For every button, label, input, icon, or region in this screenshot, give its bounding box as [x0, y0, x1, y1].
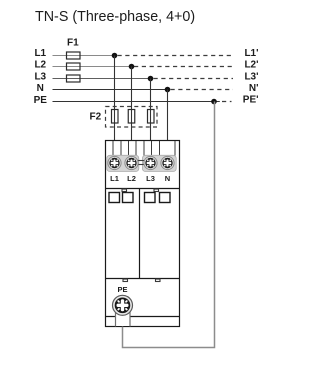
PE terminal screw	[113, 295, 133, 315]
svg-text:F1: F1	[67, 38, 79, 49]
wire drop N	[167, 90, 169, 160]
fuse F2 L3	[148, 110, 155, 124]
svg-text:PE': PE'	[243, 95, 259, 106]
node L3 junction	[148, 76, 154, 82]
wire PE dashed	[222, 101, 232, 103]
wire L1 dashed	[118, 55, 234, 57]
wire drop L3	[150, 79, 152, 160]
wire L3 dashed	[154, 78, 234, 80]
svg-text:PE: PE	[34, 95, 48, 106]
node L2 junction	[129, 64, 135, 70]
wire L2 solid	[53, 66, 132, 68]
node PE junction	[211, 99, 217, 105]
module release tab bottom left	[123, 279, 128, 281]
svg-text:L3: L3	[146, 174, 155, 183]
wire N solid	[53, 89, 168, 91]
terminal comb teeth	[113, 141, 175, 156]
terminal link bar L2-L3	[136, 160, 145, 162]
svg-text:N': N'	[249, 83, 259, 94]
svg-text:PE: PE	[117, 285, 127, 294]
svg-text:N: N	[165, 174, 170, 183]
wire drop L2	[131, 67, 133, 160]
terminal screw pad band	[107, 155, 139, 171]
svg-text:N: N	[37, 83, 44, 94]
module release tab top right	[154, 189, 159, 191]
wire drop L1	[114, 56, 116, 160]
PE screw channel	[116, 305, 131, 326]
node L1 junction	[112, 53, 118, 59]
module release tab top left	[122, 189, 127, 191]
module divider	[139, 189, 141, 279]
module release tab bottom right	[156, 279, 161, 281]
node N junction	[165, 87, 171, 93]
fuse F2 L1	[112, 110, 119, 124]
terminal screw L3	[144, 156, 158, 170]
wire L3 solid	[53, 78, 151, 80]
svg-text:L1: L1	[34, 48, 46, 59]
fuse group F2 dashed box	[106, 107, 158, 128]
wire PE return (device to PE node)	[123, 102, 215, 348]
wire PE solid	[53, 101, 220, 103]
indicator window 2	[123, 193, 134, 203]
wire N dashed	[171, 89, 234, 91]
svg-text:TN-S (Three-phase, 4+0): TN-S (Three-phase, 4+0)	[35, 9, 195, 25]
module bottom line	[106, 278, 180, 280]
device terminal section bottom line	[106, 188, 180, 190]
svg-text:F2: F2	[90, 112, 102, 123]
terminal screw N	[161, 156, 175, 170]
wire L1 solid	[53, 55, 115, 57]
svg-text:L2: L2	[127, 174, 136, 183]
base inner line	[106, 316, 180, 318]
fuse F1 L3	[67, 75, 81, 82]
terminal screw L2	[125, 156, 139, 170]
wire L2 dashed	[134, 66, 233, 68]
svg-text:L1: L1	[110, 174, 119, 183]
svg-text:L3: L3	[34, 72, 46, 83]
fuse F1 L2	[67, 63, 81, 70]
indicator window 4	[160, 193, 171, 203]
device U1 surge arrester outline	[106, 141, 180, 327]
indicator window 3	[145, 193, 156, 203]
svg-text:L3': L3'	[244, 72, 258, 83]
fuse F1 L1	[67, 52, 81, 59]
svg-text:L1': L1'	[244, 48, 258, 59]
svg-text:L2': L2'	[244, 60, 258, 71]
fuse F2 L2	[128, 110, 135, 124]
terminal screw L1	[108, 156, 122, 170]
svg-text:L2: L2	[34, 60, 46, 71]
indicator window 1	[109, 193, 120, 203]
